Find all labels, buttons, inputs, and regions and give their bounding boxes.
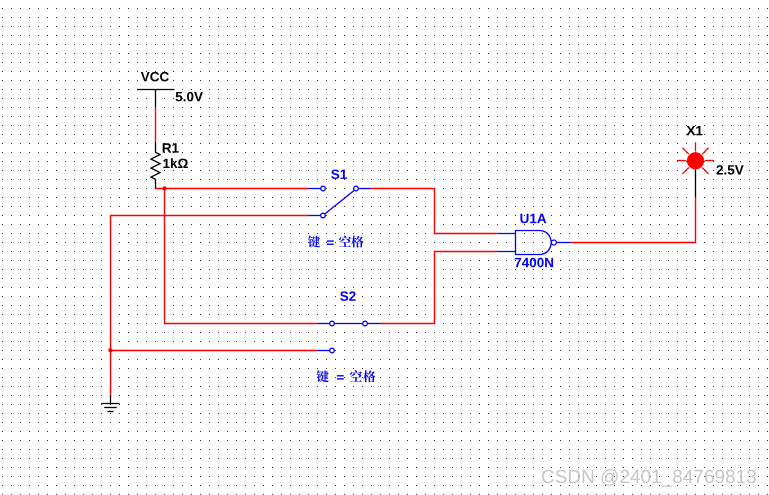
NAND gate U1A body: [516, 231, 552, 255]
wire junction down to S2 level: [164, 189, 166, 324]
wire to S2 input 2: [111, 350, 319, 352]
NAND gate U1A bubble: [551, 240, 556, 245]
label 7400N: [515, 258, 553, 268]
resistor R1: [151, 142, 160, 189]
key label of S2: 键 = 空格: [317, 370, 376, 382]
label X1: [687, 126, 703, 135]
label S1: [331, 169, 347, 179]
label U1A: [520, 214, 546, 223]
wire ground net to S1 input 2: [111, 215, 309, 217]
wire to S2 input 1: [165, 323, 319, 325]
junction node ground/S2: [108, 348, 112, 352]
label R1: [163, 143, 179, 152]
watermark CSDN @2401_84769813: [542, 469, 756, 487]
wire VCC to R1: [155, 107, 157, 142]
ground: [101, 395, 119, 411]
wire S2 common to NAND input B: [381, 252, 497, 324]
junction node R1/S1/S2: [162, 186, 166, 190]
power symbol VCC: [137, 90, 175, 108]
label S2: [340, 291, 356, 301]
value label 2.5V: [716, 165, 743, 175]
value label 5.0V: [176, 92, 203, 102]
probe X1 lamp: [677, 142, 714, 174]
wire R1 bottom to S1 input 1: [156, 188, 309, 190]
key label of S1: 键 = 空格: [308, 236, 363, 248]
switch S2: [318, 321, 381, 353]
NAND gate U1A input/output pins: [497, 234, 571, 252]
value label 1kΩ: [163, 158, 187, 168]
wire ground net vertical: [110, 216, 112, 396]
wire S1 common to NAND input A: [371, 189, 497, 234]
probe X1 pin: [695, 170, 697, 198]
wire NAND output to X1: [571, 197, 696, 242]
label VCC: [141, 72, 169, 82]
switch S1: [309, 186, 371, 218]
